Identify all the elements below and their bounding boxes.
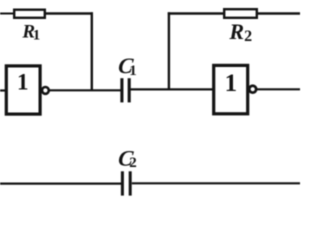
svg-text:2: 2	[244, 28, 252, 45]
svg-text:1: 1	[17, 70, 29, 95]
svg-text:2: 2	[129, 155, 137, 171]
svg-text:1: 1	[129, 63, 137, 79]
svg-text:R: R	[228, 19, 244, 44]
svg-text:1: 1	[225, 70, 238, 97]
svg-text:1: 1	[33, 28, 41, 44]
